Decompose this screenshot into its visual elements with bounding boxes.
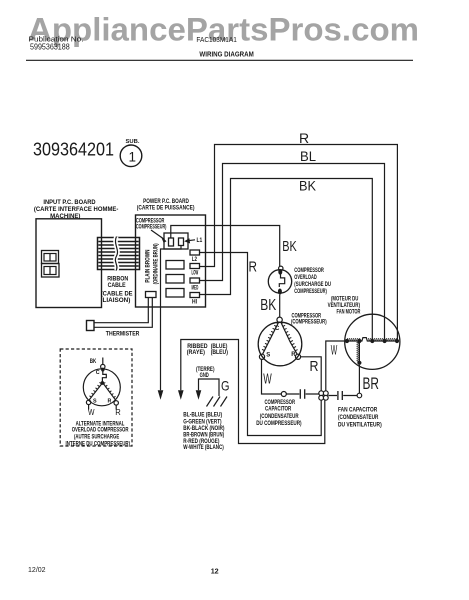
svg-text:(RAYE): (RAYE) <box>187 350 205 356</box>
svg-text:L2: L2 <box>192 257 198 263</box>
svg-text:(COMPRESSEUR): (COMPRESSEUR) <box>291 319 327 325</box>
svg-text:INPUT P.C. BOARD: INPUT P.C. BOARD <box>43 200 96 206</box>
svg-text:12/02: 12/02 <box>28 565 46 574</box>
svg-text:BK: BK <box>282 238 297 255</box>
svg-text:R: R <box>249 259 258 276</box>
svg-text:W: W <box>331 343 338 358</box>
svg-text:DU VENTILATEUR): DU VENTILATEUR) <box>338 423 382 429</box>
svg-text:LIAISON): LIAISON) <box>103 298 131 304</box>
svg-text:COMPRESSOR: COMPRESSOR <box>294 268 324 274</box>
svg-text:(CARTE DE PUISSANCE): (CARTE DE PUISSANCE) <box>137 205 195 211</box>
svg-text:G-GREEN (VERT): G-GREEN (VERT) <box>183 419 221 425</box>
svg-text:PLAIN BROWN: PLAIN BROWN <box>146 250 152 283</box>
svg-text:S: S <box>93 398 97 404</box>
svg-text:R: R <box>291 352 296 358</box>
svg-text:G: G <box>221 378 230 394</box>
svg-text:(ORDINAIRE BRUN): (ORDINAIRE BRUN) <box>154 243 160 284</box>
svg-text:C: C <box>275 326 280 332</box>
svg-text:LOW: LOW <box>192 271 199 277</box>
svg-text:1: 1 <box>129 150 137 165</box>
svg-text:COMPRESSOR: COMPRESSOR <box>136 218 165 224</box>
svg-text:MED: MED <box>192 285 199 291</box>
svg-text:CAPACITOR: CAPACITOR <box>265 406 292 412</box>
svg-text:W: W <box>88 408 95 417</box>
svg-text:BL: BL <box>300 148 316 164</box>
svg-text:FAN CAPACITOR: FAN CAPACITOR <box>338 408 378 414</box>
svg-text:S: S <box>266 353 270 359</box>
svg-text:CABLE: CABLE <box>108 283 126 289</box>
svg-text:OVERLOAD: OVERLOAD <box>294 275 317 281</box>
svg-text:(CARTE INTERFACE HOMME-: (CARTE INTERFACE HOMME- <box>34 207 119 213</box>
svg-text:(SURCHARGE DU: (SURCHARGE DU <box>294 282 331 288</box>
svg-text:COMPRESSEUR): COMPRESSEUR) <box>136 224 166 230</box>
svg-text:BK-BLACK (NOIR): BK-BLACK (NOIR) <box>183 426 224 432</box>
svg-text:FAN MOTOR: FAN MOTOR <box>337 310 361 316</box>
svg-text:DU COMPRESSEUR): DU COMPRESSEUR) <box>256 421 301 427</box>
svg-text:WIRING DIAGRAM: WIRING DIAGRAM <box>199 50 253 59</box>
svg-text:R-RED (ROUGE): R-RED (ROUGE) <box>183 439 219 445</box>
svg-text:BK: BK <box>90 359 97 365</box>
svg-text:R: R <box>310 359 319 375</box>
svg-text:W-WHITE (BLANC): W-WHITE (BLANC) <box>183 445 224 451</box>
svg-text:COMPRESSEUR): COMPRESSEUR) <box>294 289 327 295</box>
svg-text:MACHINE): MACHINE) <box>50 214 80 220</box>
svg-text:BR-BROWN (BRUN): BR-BROWN (BRUN) <box>183 433 224 439</box>
svg-text:BK: BK <box>260 297 276 314</box>
svg-text:W: W <box>263 371 272 388</box>
svg-text:309364201: 309364201 <box>33 140 114 160</box>
svg-text:(CONDENSATEUR: (CONDENSATEUR <box>338 415 379 421</box>
svg-text:C: C <box>96 370 100 376</box>
svg-text:R: R <box>299 130 309 146</box>
svg-text:POWER P.C. BOARD: POWER P.C. BOARD <box>143 199 189 205</box>
svg-text:HI: HI <box>192 299 197 305</box>
svg-text:INTERNE DU COMPRESSEUR): INTERNE DU COMPRESSEUR) <box>66 442 131 448</box>
svg-text:THERMISTER: THERMISTER <box>106 332 140 338</box>
svg-text:(BLEU): (BLEU) <box>211 350 228 356</box>
svg-text:(CABLE DE: (CABLE DE <box>101 292 133 298</box>
svg-text:BK: BK <box>299 178 317 194</box>
svg-text:BR: BR <box>363 374 380 393</box>
svg-text:FAC103M1A1: FAC103M1A1 <box>196 37 237 44</box>
svg-text:COMPRESSOR: COMPRESSOR <box>265 400 296 406</box>
svg-text:12: 12 <box>211 566 219 575</box>
svg-text:(CONDENSATEUR: (CONDENSATEUR <box>260 414 299 420</box>
svg-text:VENTILATEUR): VENTILATEUR) <box>328 303 360 309</box>
svg-text:(MOTEUR DU: (MOTEUR DU <box>331 296 358 302</box>
svg-text:SUB.: SUB. <box>126 139 140 145</box>
svg-text:GND: GND <box>200 373 210 379</box>
svg-text:ALTERNATE INTERNAL: ALTERNATE INTERNAL <box>76 421 125 427</box>
svg-text:BL-BLUE (BLEU): BL-BLUE (BLEU) <box>183 413 222 419</box>
svg-text:OVERLOAD COMPRESSOR: OVERLOAD COMPRESSOR <box>72 428 129 434</box>
svg-text:R: R <box>108 398 112 404</box>
svg-text:(AUTRE SURCHARGE: (AUTRE SURCHARGE <box>74 435 119 441</box>
svg-text:5995363188: 5995363188 <box>30 43 70 52</box>
svg-text:L1: L1 <box>197 238 203 244</box>
svg-text:RIBBON: RIBBON <box>107 276 128 282</box>
svg-text:R: R <box>115 408 121 417</box>
